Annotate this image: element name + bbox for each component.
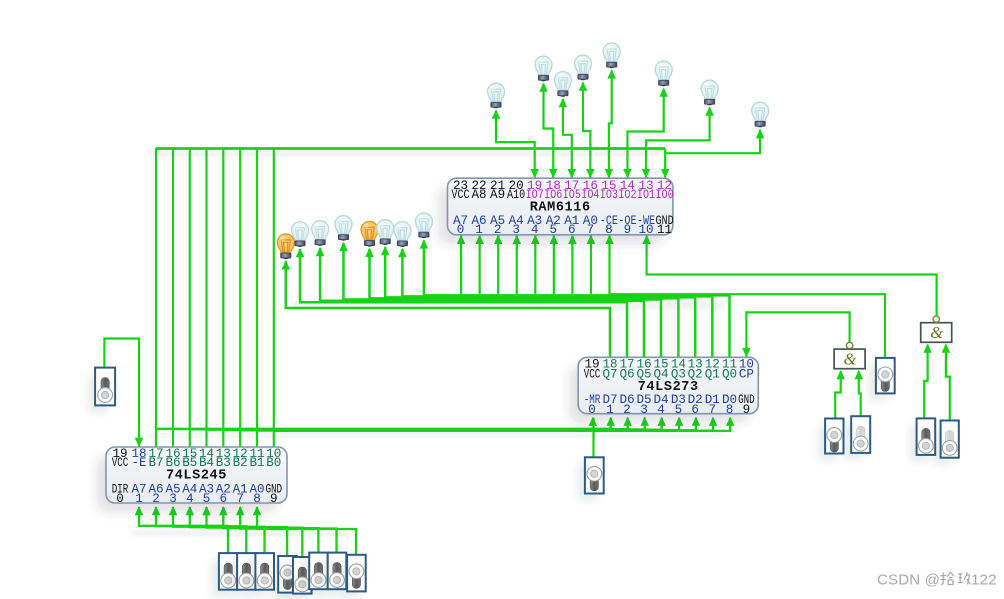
svg-text:RAM6116: RAM6116 (530, 201, 591, 216)
arrowhead into 74LS245 pin 7 A1 (236, 506, 245, 515)
svg-text:VCC: VCC (584, 367, 601, 381)
wire 74LS273 Q4 to bulb M4 (344, 243, 662, 357)
svg-text:2: 2 (494, 223, 502, 237)
svg-text:74LS245: 74LS245 (166, 469, 227, 484)
arrowhead into 74LS273 pin 0 -MR (589, 417, 598, 426)
wire 74LS245 B0 to 74LS273 D0 (274, 418, 730, 431)
svg-text:2: 2 (623, 403, 631, 417)
arrowhead into 74LS273 pin 3 D5 (640, 417, 649, 426)
wire switch SW2 to 74LS245 A6 (156, 507, 246, 553)
switch SW8 A0 (340, 555, 366, 599)
arrowhead into 74LS245 pin 5 A3 (202, 506, 211, 515)
wire 74LS245 B2 vertical riser (239, 149, 241, 447)
arrowhead into RAM pin 18 IO6 (549, 169, 558, 178)
svg-text:Q0: Q0 (722, 367, 737, 381)
arrowhead into RAM pin 0 A7 (457, 235, 466, 244)
lamp M4 Q4 (335, 216, 352, 241)
switch SW10 (-MR control) (578, 457, 604, 500)
arrowhead into bulb L5 (607, 69, 616, 78)
wire 74LS245 B5 to 74LS273 D5 (190, 418, 645, 430)
arrowhead into bulb L6 (659, 88, 668, 97)
svg-text:4: 4 (657, 403, 665, 417)
svg-text:5: 5 (675, 403, 683, 417)
switch SW3 A5 (248, 553, 274, 597)
wire 74LS273 Q5 to bulb M3 (320, 248, 644, 357)
wire switch SW11 to NAND U1 input a (835, 371, 841, 419)
buffer chip U4 74LS245 (97, 447, 287, 512)
svg-text:5: 5 (203, 492, 211, 506)
lamp L3 IO5 (554, 72, 571, 97)
wire bulb L7 to RAM pin 13 IO1 (646, 108, 710, 179)
register chip U5 74LS273 (569, 357, 758, 422)
wire branch to bulb L8 (665, 130, 760, 154)
svg-text:7: 7 (236, 492, 244, 506)
svg-text:8: 8 (253, 492, 261, 506)
svg-text:3: 3 (512, 223, 520, 237)
NAND gate U1 (834, 342, 865, 368)
lamp M3 Q5 (312, 221, 329, 246)
wire switch SW12 to NAND U1 input b (859, 371, 861, 416)
lamp L7 IO1 (701, 80, 718, 105)
svg-text:3: 3 (169, 492, 177, 506)
arrowhead into bulb L7 (705, 107, 714, 116)
svg-text:9: 9 (270, 492, 278, 506)
svg-text:9: 9 (624, 223, 632, 237)
arrowhead into bulb M2 (296, 248, 305, 257)
svg-text:A10: A10 (507, 188, 525, 202)
arrowhead into 74LS245 pin 2 A6 (152, 506, 161, 515)
wire switch SW13 to NAND U2 input a (924, 345, 927, 419)
arrowhead into 74LS273 pin 10 CP (742, 348, 751, 357)
svg-text:&: & (844, 349, 857, 368)
arrowhead into RAM pin 8 -CE (605, 235, 614, 244)
arrowhead into 74LS273 pin 5 D3 (675, 417, 684, 426)
RAM chip U3 RAM6116 (439, 178, 674, 244)
wire switch SW7 to 74LS245 A1 (240, 507, 336, 553)
arrowhead into 74LS273 pin 8 D0 (726, 417, 735, 426)
svg-text:IO3: IO3 (600, 188, 618, 202)
wire top data bus (B7-B0 to RAM IO) (156, 147, 665, 150)
svg-text:0: 0 (457, 223, 465, 237)
wire RAM address A0 vertical (590, 235, 592, 300)
wire 74LS273 Q0 to bulb M8 (424, 240, 730, 357)
wire bulb L1 to RAM pin 19 IO7 (496, 111, 535, 179)
wire switch SW4 to 74LS245 A4 (190, 507, 287, 556)
svg-text:1: 1 (475, 223, 483, 237)
svg-text:VCC: VCC (451, 188, 470, 202)
switch SW1 A7 (212, 553, 238, 597)
svg-text:11: 11 (657, 223, 672, 237)
svg-text:-E: -E (131, 456, 146, 470)
wire -MR net from switch SW10 (592, 418, 594, 458)
arrowhead into 74LS245 pin 8 A0 (253, 506, 262, 515)
wire bulb L4 to RAM pin 16 IO4 (583, 83, 590, 179)
arrowhead into bulb M3 (316, 247, 325, 256)
svg-text:3: 3 (640, 403, 648, 417)
wire RAM address A4 vertical (516, 235, 518, 300)
wire RAM address A2 vertical (553, 235, 555, 300)
arrowhead into 74LS273 pin 6 D2 (692, 417, 701, 426)
arrowhead into RAM pin 7 A0 (587, 235, 596, 244)
arrowhead into NAND U2 input a (923, 344, 932, 353)
wire RAM address A1 vertical (571, 235, 573, 300)
wire switch SW3 to 74LS245 A5 (173, 507, 265, 553)
lamp M5 Q3 (361, 221, 378, 246)
arrowhead into NAND U1 input a (836, 370, 845, 379)
arrowhead into RAM pin 12 IO0 (661, 169, 670, 178)
arrowhead into 74LS273 pin 7 D1 (709, 417, 718, 426)
arrowhead into 74LS245 pin 4 A4 (186, 506, 195, 515)
svg-text:B7: B7 (148, 456, 163, 470)
switch SW0 (-E control) (88, 368, 115, 413)
svg-text:Q6: Q6 (619, 367, 634, 381)
arrowhead into bulb L8 (756, 129, 765, 138)
svg-text:1: 1 (135, 492, 143, 506)
wire switch SW6 to 74LS245 A2 (223, 507, 318, 553)
svg-text:6: 6 (220, 492, 228, 506)
switch SW7 A1 (321, 553, 347, 597)
arrowhead into RAM pin 4 A3 (531, 235, 540, 244)
wire switch SW8 to 74LS245 A0 (257, 507, 356, 555)
arrowhead into RAM pin 19 IO7 (530, 169, 539, 178)
wire CP net from NAND U1 output (746, 312, 849, 357)
svg-text:4: 4 (186, 492, 194, 506)
svg-text:9: 9 (743, 403, 751, 417)
arrowhead into NAND U1 input b (855, 370, 864, 379)
wire 74LS273 Q3 to bulb M5 (370, 249, 679, 357)
wire bulb L3 to RAM pin 17 IO5 (563, 99, 572, 178)
wire 74LS245 B1 to 74LS273 D1 (257, 418, 713, 431)
wire 74LS245 B3 vertical riser (222, 149, 224, 447)
svg-text:10: 10 (638, 223, 653, 237)
svg-text:7: 7 (587, 223, 595, 237)
arrowhead into bulb L1 (492, 110, 501, 119)
svg-text:VCC: VCC (112, 456, 129, 470)
arrowhead into RAM pin 5 A2 (550, 235, 559, 244)
wire 74LS245 B7 vertical riser (155, 148, 157, 447)
svg-text:A8: A8 (471, 188, 486, 202)
wire 74LS245 B4 vertical riser (205, 149, 207, 448)
lamp L5 IO3 (603, 43, 620, 68)
arrowhead into RAM pin 17 IO5 (568, 169, 577, 178)
lamp L8 IO0 (752, 102, 769, 127)
arrowhead into RAM pin 6 A1 (568, 235, 577, 244)
wire 74LS245 B5 vertical riser (189, 148, 191, 447)
lamp L4 IO4 (574, 55, 591, 80)
arrowhead into 74LS245 pin 6 A2 (219, 506, 228, 515)
arrowhead into RAM pin 3 A4 (512, 235, 521, 244)
lamp M1 Q7 (277, 234, 294, 259)
arrowhead into RAM pin 15 IO3 (605, 169, 614, 178)
wire RAM address A7 vertical (460, 235, 462, 300)
arrowhead into bulb M8 (420, 239, 429, 248)
wire 74LS273 Q2 to bulb M6 (385, 247, 695, 357)
lamp L1 IO7 (487, 83, 504, 108)
wire 74LS273 Q1 to bulb M7 (402, 249, 712, 357)
wire switch SW1 to 74LS245 A7 (139, 507, 228, 553)
arrowhead into 74LS245 pin 1 A7 (135, 506, 144, 515)
switch SW5 A3 (286, 557, 312, 599)
lamp L2 IO6 (535, 56, 552, 81)
wire -E net from switch SW0 (104, 339, 139, 448)
svg-text:Q1: Q1 (705, 367, 720, 381)
svg-text:B0: B0 (266, 456, 281, 470)
svg-text:B2: B2 (233, 456, 248, 470)
svg-text:0: 0 (588, 403, 596, 417)
arrowhead into RAM pin 1 A6 (475, 235, 484, 244)
arrowhead into RAM pin 2 A5 (494, 235, 503, 244)
arrowhead into RAM pin 13 IO1 (642, 169, 651, 178)
arrowhead into RAM pin 14 IO2 (623, 169, 632, 178)
arrowhead into RAM pin 16 IO4 (586, 169, 595, 178)
svg-text:1: 1 (606, 403, 614, 417)
lamp M7 Q1 (394, 222, 411, 247)
svg-text:8: 8 (605, 223, 613, 237)
wire -WE net from NAND U2 output (647, 235, 937, 316)
svg-text:CP: CP (739, 367, 754, 381)
wire 74LS273 Q7 to bulb M1 (286, 261, 610, 357)
wire bulb L5 to RAM pin 15 IO3 (609, 70, 612, 178)
wire RAM address A3 vertical (534, 235, 536, 300)
switch SW12 (U1 input b) (844, 416, 870, 460)
wire 74LS245 B0 vertical riser (273, 149, 275, 447)
svg-text:5: 5 (549, 223, 557, 237)
svg-text:&: & (930, 323, 943, 342)
lamp M8 Q0 (415, 213, 432, 238)
arrowhead into 74LS273 pin 1 D7 (606, 417, 615, 426)
switch SW9 (-CE control) (869, 358, 895, 401)
wire -CE net from switch SW9 (610, 235, 886, 358)
switch SW6 A2 (302, 553, 328, 597)
svg-text:B1: B1 (249, 456, 264, 470)
wire 74LS245 B2 to 74LS273 D2 (240, 418, 696, 431)
svg-text:IO0: IO0 (655, 188, 673, 202)
svg-text:6: 6 (568, 223, 576, 237)
wire 74LS273 Q6 to bulb M2 (300, 249, 627, 357)
arrowhead into RAM pin 10 -WE (642, 235, 651, 244)
wire 74LS245 B6 to 74LS273 D6 (173, 418, 628, 429)
arrowhead into 74LS245 pin 18 -E (135, 438, 144, 447)
watermark CSDN @拾玖122 (877, 571, 997, 589)
svg-text:A9: A9 (490, 188, 505, 202)
wire switch SW14 to NAND U2 input b (946, 345, 950, 421)
arrowhead into NAND U2 input b (942, 344, 951, 353)
wire 74LS245 B4 to 74LS273 D4 (207, 418, 662, 430)
wire 74LS245 B1 vertical riser (256, 149, 258, 447)
wire 74LS245 B3 to 74LS273 D3 (223, 418, 679, 430)
svg-text:4: 4 (531, 223, 539, 237)
wire 74LS245 B6 vertical riser (172, 148, 174, 447)
wire switch SW5 to 74LS245 A3 (207, 507, 303, 557)
svg-text:0: 0 (116, 492, 124, 506)
arrowhead into bulb M7 (398, 248, 407, 257)
wire drop into RAM pin 12 IO0 (664, 149, 666, 179)
arrowhead into 74LS273 pin 4 D4 (657, 417, 666, 426)
arrowhead into 74LS273 pin 2 D6 (623, 417, 632, 426)
arrowhead into bulb M6 (381, 246, 390, 255)
NAND gate U2 (921, 316, 952, 342)
lamp M6 Q2 (377, 220, 394, 245)
svg-text:IO1: IO1 (637, 188, 655, 202)
switch SW13 (U2 input a) (910, 418, 936, 462)
wire bulb L2 to RAM pin 18 IO6 (544, 84, 554, 179)
svg-text:IO2: IO2 (618, 188, 636, 202)
switch SW14 (U2 input b) (934, 421, 959, 465)
arrowhead into 74LS245 pin 3 A5 (169, 506, 178, 515)
switch SW4 A4 (271, 556, 297, 599)
arrowhead into bulb L4 (579, 82, 588, 91)
arrowhead into bulb L2 (539, 83, 548, 92)
wire 74LS245 B7 to 74LS273 D7 (156, 418, 611, 429)
arrowhead into bulb L3 (559, 98, 568, 107)
svg-text:74LS273: 74LS273 (638, 380, 699, 395)
arrowhead into bulb M1 (282, 260, 291, 269)
arrowhead into bulb M5 (365, 248, 374, 257)
wire bulb L6 to RAM pin 14 IO2 (627, 89, 663, 179)
wire RAM address A5 vertical (497, 235, 499, 300)
svg-text:2: 2 (152, 492, 160, 506)
svg-text:8: 8 (726, 403, 734, 417)
arrowhead into bulb M4 (339, 242, 348, 251)
wire RAM address A6 vertical (479, 235, 481, 300)
switch SW11 (U1 input a) (818, 419, 843, 461)
switch SW2 A6 (230, 553, 256, 597)
lamp M2 Q6 (291, 222, 308, 247)
svg-text:7: 7 (709, 403, 717, 417)
lamp L6 IO2 (655, 61, 672, 86)
svg-text:Q7: Q7 (602, 367, 617, 381)
svg-text:6: 6 (691, 403, 699, 417)
